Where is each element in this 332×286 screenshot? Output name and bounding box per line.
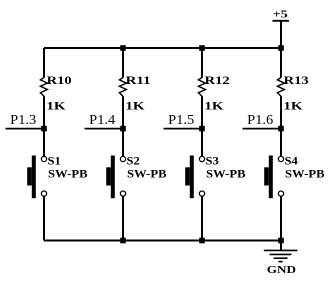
switch S1 button actuator	[27, 167, 32, 185]
junction stub P1.4	[120, 126, 126, 132]
wire stub P1.3	[6, 128, 45, 130]
svg-text:+5: +5	[273, 8, 289, 20]
wire stub P1.6	[243, 128, 282, 130]
svg-text:S2: S2	[127, 154, 140, 168]
switch S3 button actuator	[185, 167, 190, 185]
resistor R12	[198, 78, 205, 97]
junction bottom bus / S2	[120, 238, 126, 244]
svg-text:SW-PB: SW-PB	[127, 167, 167, 181]
switch S2 contact bar	[111, 156, 115, 199]
wire: top supply bus	[44, 47, 281, 49]
resistor R10	[40, 78, 47, 97]
switch S2 terminal 1	[120, 156, 125, 161]
wire bus to R10	[43, 48, 45, 78]
switch S4 button actuator	[264, 167, 269, 185]
wire stub P1.5	[164, 128, 203, 130]
svg-text:S4: S4	[285, 154, 298, 168]
resistor R11	[119, 78, 126, 97]
svg-text:1K: 1K	[46, 98, 66, 112]
switch S4 terminal 2	[278, 191, 283, 196]
wire R10 to switch S1	[43, 96, 45, 156]
svg-text:S3: S3	[206, 154, 219, 168]
wire bus to R12	[201, 48, 203, 78]
wire switch S2 to bottom bus	[122, 196, 124, 240]
switch S2 terminal 2	[120, 191, 125, 196]
junction top bus / R11	[120, 45, 126, 51]
node P1.6 branch	[243, 45, 325, 243]
wire switch S4 to bottom bus	[280, 196, 282, 240]
switch S1 terminal 2	[41, 191, 46, 196]
wire: bottom ground bus	[44, 240, 281, 242]
switch S3 terminal 1	[199, 156, 204, 161]
svg-text:P1.5: P1.5	[168, 112, 194, 127]
switch S3 terminal 2	[199, 191, 204, 196]
svg-text:R10: R10	[47, 73, 72, 87]
node P1.5 branch	[164, 45, 246, 243]
junction stub P1.6	[278, 126, 284, 132]
svg-text:SW-PB: SW-PB	[285, 167, 325, 181]
svg-text:1K: 1K	[283, 98, 303, 112]
wire switch S3 to bottom bus	[201, 196, 203, 240]
node P1.4 branch	[85, 45, 167, 243]
svg-text:SW-PB: SW-PB	[48, 167, 88, 181]
svg-text:R13: R13	[284, 73, 309, 87]
svg-text:1K: 1K	[204, 98, 224, 112]
wire stub P1.4	[85, 128, 124, 130]
wire bus to R13	[280, 48, 282, 78]
node P1.3 branch	[6, 48, 88, 241]
resistor R13	[277, 78, 284, 97]
wire R12 to switch S3	[201, 96, 203, 156]
switch S3 contact bar	[190, 156, 194, 199]
switch S4 contact bar	[269, 156, 273, 199]
svg-text:R12: R12	[205, 73, 230, 87]
svg-text:R11: R11	[126, 73, 151, 87]
junction bottom bus / S4	[278, 238, 284, 244]
svg-text:P1.6: P1.6	[247, 112, 273, 127]
wire R11 to switch S2	[122, 96, 124, 156]
wire bus to R11	[122, 48, 124, 78]
junction bottom bus / S3	[199, 238, 205, 244]
wire switch S1 to bottom bus	[43, 196, 45, 240]
switch S1 contact bar	[32, 156, 36, 199]
junction stub P1.3	[41, 126, 47, 132]
power +5 symbol	[273, 8, 290, 48]
wire R13 to switch S4	[280, 96, 282, 156]
switch S2 button actuator	[106, 167, 111, 185]
junction top bus / R12	[199, 45, 205, 51]
svg-text:SW-PB: SW-PB	[206, 167, 246, 181]
ground GND symbol	[264, 241, 298, 277]
svg-text:P1.4: P1.4	[89, 112, 115, 127]
switch S4 terminal 1	[278, 156, 283, 161]
svg-text:GND: GND	[267, 264, 296, 276]
svg-text:P1.3: P1.3	[10, 112, 36, 127]
junction top bus / R13	[278, 45, 284, 51]
svg-text:S1: S1	[48, 154, 61, 168]
svg-text:1K: 1K	[125, 98, 145, 112]
junction stub P1.5	[199, 126, 205, 132]
switch S1 terminal 1	[41, 156, 46, 161]
